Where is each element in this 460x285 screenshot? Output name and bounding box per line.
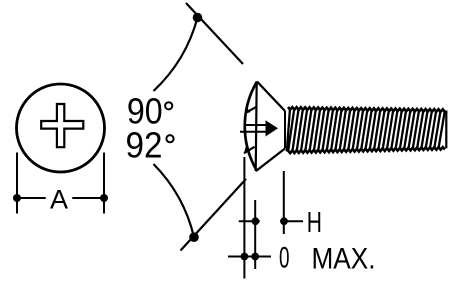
svg-text:92: 92 xyxy=(126,125,163,166)
svg-text:0: 0 xyxy=(279,242,290,275)
svg-text:MAX.: MAX. xyxy=(312,243,376,276)
svg-text:H: H xyxy=(307,207,322,239)
svg-text:A: A xyxy=(50,185,68,215)
